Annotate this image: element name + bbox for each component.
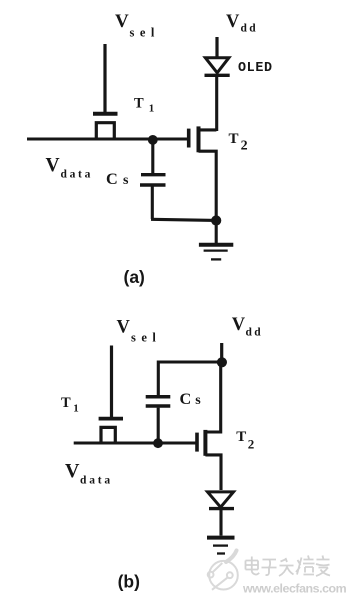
OLED cathode bar (a) bbox=[205, 74, 230, 77]
transistor T2 gate bar (a) bbox=[187, 129, 191, 148]
capacitor Cs bottom plate (a) bbox=[140, 183, 166, 186]
wire: T2 drain arm up to V_dd (b) bbox=[205, 362, 220, 432]
ground symbol (b) bbox=[207, 538, 235, 554]
node: V_dd junction (b) bbox=[217, 357, 227, 367]
svg-text:s: s bbox=[123, 173, 129, 188]
svg-text:V: V bbox=[115, 11, 129, 32]
node: gate/storage junction (b) bbox=[153, 438, 163, 448]
svg-text:1: 1 bbox=[73, 403, 79, 415]
wire: junction to capacitor (a) bbox=[151, 140, 154, 173]
label T1 (a) bbox=[134, 96, 154, 115]
wire: top rail to capacitor (b) bbox=[158, 362, 222, 395]
wire: T2 drain arm (a) bbox=[199, 128, 217, 131]
capacitor Cs top plate (b) bbox=[146, 395, 171, 399]
svg-text:www.elecfans.com: www.elecfans.com bbox=[242, 582, 347, 596]
label V_data (b) bbox=[65, 460, 113, 487]
wire: T2 source arm down to diode (b) bbox=[205, 455, 221, 490]
svg-text:V: V bbox=[46, 155, 60, 176]
svg-text:dd: dd bbox=[241, 23, 258, 35]
wire: V_dd lead (a) bbox=[215, 37, 218, 57]
svg-text:data: data bbox=[61, 168, 94, 180]
transistor T2 channel bar (a) bbox=[197, 126, 201, 152]
svg-text:T: T bbox=[229, 131, 239, 147]
label Cs (b) bbox=[180, 389, 202, 408]
wire: capacitor to junction (b) bbox=[157, 408, 160, 444]
svg-text:V: V bbox=[117, 318, 131, 338]
label T2 (b) bbox=[236, 429, 254, 452]
label V_data (a) bbox=[46, 155, 94, 181]
label V_sel (b) bbox=[117, 318, 162, 345]
watermark text dianzifashaoyou bbox=[246, 556, 331, 577]
wire: T2 source arm down to ground rail (a) bbox=[199, 151, 217, 220]
svg-text:2: 2 bbox=[241, 138, 248, 153]
svg-text:(a): (a) bbox=[124, 267, 145, 287]
label T1 (b) bbox=[61, 395, 79, 415]
diode triangle (b) bbox=[208, 492, 234, 507]
label V_dd (b) bbox=[232, 315, 263, 339]
wire: OLED to T2 drain (a) bbox=[215, 77, 218, 131]
transistor T1 gate bar (a) bbox=[93, 112, 118, 116]
transistor T1 channel (a) bbox=[96, 123, 114, 139]
svg-text:T: T bbox=[236, 429, 246, 445]
label V_dd (a) bbox=[226, 12, 258, 35]
svg-text:V: V bbox=[232, 315, 246, 335]
wire: ground stem (a) bbox=[215, 221, 218, 244]
wire: bottom rail (a) bbox=[151, 219, 216, 220]
label T2 (a) bbox=[229, 131, 248, 154]
svg-text:dd: dd bbox=[246, 327, 263, 339]
wire: V_data row (a) bbox=[27, 138, 188, 141]
svg-text:V: V bbox=[65, 460, 80, 482]
node: ground junction (a) bbox=[211, 215, 221, 225]
wire: diode to ground (b) bbox=[219, 510, 222, 536]
transistor T1 gate bar (b) bbox=[99, 417, 123, 421]
node: gate/storage junction (a) bbox=[148, 135, 158, 145]
svg-text:sel: sel bbox=[131, 331, 161, 345]
capacitor Cs bottom plate (b) bbox=[146, 404, 171, 408]
diode cathode bar (b) bbox=[209, 507, 234, 510]
svg-text:(b): (b) bbox=[118, 572, 140, 592]
OLED diode triangle (a) bbox=[205, 58, 229, 73]
capacitor Cs top plate (a) bbox=[141, 173, 166, 176]
ground symbol (a) bbox=[199, 245, 233, 260]
label V_sel (a) bbox=[115, 11, 160, 40]
wire: V_sel gate lead (b) bbox=[110, 346, 113, 418]
svg-text:OLED: OLED bbox=[238, 61, 273, 76]
svg-text:V: V bbox=[226, 12, 240, 32]
transistor T2 channel bar (b) bbox=[203, 430, 207, 456]
svg-text:T: T bbox=[61, 395, 71, 411]
wire: V_sel gate lead (a) bbox=[103, 44, 106, 112]
wire: V_dd lead (b) bbox=[220, 343, 223, 362]
svg-text:C: C bbox=[106, 169, 118, 188]
svg-text:data: data bbox=[80, 475, 113, 487]
svg-text:1: 1 bbox=[149, 103, 155, 115]
transistor T1 channel (b) bbox=[101, 427, 115, 443]
transistor T2 gate bar (b) bbox=[195, 433, 199, 452]
svg-text:sel: sel bbox=[130, 26, 160, 40]
svg-text:2: 2 bbox=[248, 437, 255, 452]
svg-text:C: C bbox=[180, 389, 192, 408]
watermark logo circle bbox=[208, 551, 238, 590]
svg-text:T: T bbox=[134, 96, 144, 112]
wire: V_data row (b) bbox=[74, 442, 196, 445]
wire: capacitor to bottom rail (a) bbox=[151, 187, 154, 220]
svg-text:s: s bbox=[195, 393, 201, 408]
label Cs (a) bbox=[106, 169, 129, 188]
